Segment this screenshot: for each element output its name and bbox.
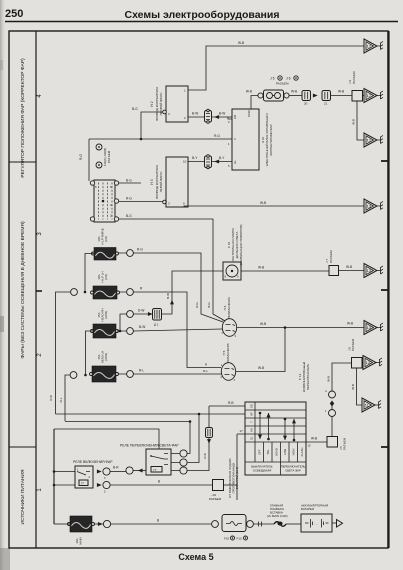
header rule	[5, 21, 398, 23]
svg-text:3: 3	[168, 202, 170, 206]
svg-text:8: 8	[225, 275, 227, 279]
svg-text:HEAD: HEAD	[275, 448, 279, 456]
svg-text:БАТАРЕЯ: БАТАРЕЯ	[301, 507, 314, 511]
svg-text:W-B: W-B	[258, 366, 264, 370]
svg-text:Н 3: Н 3	[150, 179, 154, 184]
ECU box korrektor control unit	[232, 109, 259, 170]
wire B-G regulator bottom to headlight area	[119, 219, 227, 322]
wire B-G regulator top-right up	[119, 182, 142, 184]
svg-text:(2L MAIN 3,0W): (2L MAIN 3,0W)	[267, 514, 288, 518]
svg-text:R-L: R-L	[203, 369, 208, 373]
svg-text:D-W: D-W	[138, 309, 144, 313]
svg-text:OFF: OFF	[258, 449, 262, 455]
svg-text:R-G: R-G	[126, 197, 132, 201]
svg-text:V: V	[233, 138, 237, 140]
svg-text:ФОНАРЕЙ (11-5): ФОНАРЕЙ (11-5)	[235, 467, 239, 490]
svg-text:КОРРЕКТОРАМИ ФАР: КОРРЕКТОРАМИ ФАР	[269, 124, 273, 155]
svg-text:17: 17	[367, 93, 372, 98]
wire B to connector J34	[110, 484, 212, 486]
svg-text:FLASH: FLASH	[300, 448, 304, 457]
svg-text:5: 5	[228, 164, 230, 168]
svg-text:Схема 5: Схема 5	[178, 552, 213, 562]
svg-text:F10: F10	[224, 537, 230, 541]
fuse HEAD LH	[92, 366, 116, 382]
wire B fuse to fusible link	[94, 523, 212, 525]
wire R fuse2 to left headlamp	[120, 292, 222, 368]
svg-text:EL: EL	[250, 436, 254, 440]
svg-text:HF: HF	[250, 412, 254, 416]
junction box J7	[329, 266, 339, 276]
svg-text:B: B	[157, 519, 159, 523]
wire bus to fuse	[54, 523, 70, 525]
offpage triangle 4	[364, 199, 377, 213]
svg-text:ЛЕВАЯ ФАРА: ЛЕВАЯ ФАРА	[226, 342, 230, 362]
svg-text:20: 20	[304, 102, 308, 106]
svg-text:17: 17	[367, 44, 372, 49]
wire to left bus R-L	[65, 375, 70, 421]
svg-text:J 5: J 5	[270, 77, 275, 81]
long wire R-G regulator to ECU pin V	[89, 138, 232, 140]
svg-text:Р 8: Р 8	[101, 228, 105, 233]
svg-text:B-G: B-G	[132, 107, 138, 111]
svg-text:B-W: B-W	[192, 112, 198, 116]
svg-text:HIGH: HIGH	[292, 449, 296, 456]
wire B-W fuse3 to right headlamp	[120, 329, 222, 331]
svg-text:W-B: W-B	[258, 266, 264, 270]
svg-text:РАЗЪЕМ: РАЗЪЕМ	[107, 150, 111, 163]
svg-text:(КОМБИНАЦИЯ ПРИБОРОВ): (КОМБИНАЦИЯ ПРИБОРОВ)	[239, 224, 243, 265]
ECU ground chain wire	[251, 96, 260, 110]
wire down to regulator top-left pin	[88, 139, 90, 181]
wire B-W right drive to D1	[188, 116, 205, 118]
svg-text:HU: HU	[250, 428, 254, 432]
svg-text:(UPR): (UPR)	[104, 353, 108, 361]
high beam indicator lamp box	[223, 262, 241, 280]
oval connector 20	[302, 91, 311, 101]
svg-text:B-G: B-G	[126, 214, 132, 218]
bus junction fuse2	[84, 291, 87, 294]
offpage triangle 6	[364, 321, 377, 335]
fusible link symbol	[253, 523, 274, 525]
sidebar section line B	[9, 446, 36, 448]
wire D-W branch to diode box	[117, 314, 148, 331]
connector circle left of fuse4	[70, 372, 77, 379]
svg-text:3: 3	[37, 232, 43, 236]
svg-text:ГГ: ГГ	[81, 482, 85, 486]
svg-text:B-G: B-G	[126, 179, 132, 183]
connector circle left of fuse2	[71, 289, 78, 296]
dimmer relay box	[146, 449, 171, 475]
svg-text:2: 2	[228, 120, 230, 124]
svg-text:R: R	[205, 363, 208, 367]
svg-text:9: 9	[237, 275, 239, 279]
svg-text:HL: HL	[233, 160, 237, 164]
wire B-R to dimmer relay	[110, 471, 126, 473]
svg-text:РАЗЪЕМ: РАЗЪЕМ	[209, 497, 222, 501]
svg-text:R-L: R-L	[59, 397, 63, 402]
svg-text:Н 2: Н 2	[150, 101, 154, 106]
headlight relay box	[75, 466, 93, 488]
wire to left bus R-B	[56, 292, 71, 414]
fuse 40A MAIN	[70, 516, 92, 532]
svg-text:РАЗЪЕМ: РАЗЪЕМ	[329, 250, 333, 263]
svg-text:B-Y: B-Y	[219, 156, 225, 160]
diode box high beam	[153, 309, 162, 321]
svg-text:РЕЛЕ ВКЛЮЧЕНИЯ ФАР: РЕЛЕ ВКЛЮЧЕНИЯ ФАР	[73, 460, 113, 464]
wire lamp to J7 and triangle 5	[241, 270, 364, 273]
svg-text:MAIN: MAIN	[79, 537, 83, 544]
svg-text:R-B: R-B	[203, 453, 207, 458]
svg-text:13: 13	[367, 325, 372, 330]
sidebar divider	[35, 31, 37, 548]
svg-text:W-B: W-B	[347, 322, 353, 326]
wire diode box up to lamp	[162, 271, 224, 314]
wire fuse3 left to bus	[86, 331, 94, 375]
dimmer right pins	[180, 450, 187, 457]
svg-text:T: T	[250, 421, 254, 423]
svg-text:GND: GND	[247, 109, 251, 117]
svg-text:3: 3	[235, 334, 237, 338]
svg-text:Д 1: Д 1	[154, 323, 159, 327]
svg-text:2: 2	[184, 116, 186, 120]
svg-text:РАЗЪЕМ: РАЗЪЕМ	[352, 71, 356, 84]
contact arrows	[260, 413, 294, 440]
svg-text:6: 6	[95, 185, 97, 189]
svg-text:J 6: J 6	[286, 77, 291, 81]
connector J30 circle A	[96, 144, 102, 150]
wire B-Y left drive to D2	[188, 161, 205, 163]
svg-text:W-B: W-B	[291, 90, 297, 94]
svg-text:HR: HR	[233, 114, 237, 119]
svg-text:W-B: W-B	[260, 201, 266, 205]
wire W-B left drive bottom to triangle 4	[184, 206, 364, 207]
svg-text:10: 10	[183, 160, 187, 164]
junction box J8	[352, 358, 363, 369]
svg-text:9: 9	[183, 202, 185, 206]
svg-text:СВЕТА ФАР: СВЕТА ФАР	[285, 469, 301, 473]
svg-text:W-B: W-B	[260, 322, 266, 326]
svg-text:ФАРЫ (БЕЗ СИСТЕМЫ ОСВЕЩЕНИЯ В: ФАРЫ (БЕЗ СИСТЕМЫ ОСВЕЩЕНИЯ В ДНЕВНОЕ ВР…	[20, 221, 26, 359]
battery	[301, 514, 332, 532]
svg-text:W-B: W-B	[346, 265, 352, 269]
svg-text:13: 13	[367, 204, 372, 209]
svg-text:ОСВЕЩЕНИЯ: ОСВЕЩЕНИЯ	[253, 469, 271, 473]
svg-text:W-B: W-B	[351, 384, 355, 390]
actuator box right headlamp corrector	[166, 86, 188, 122]
svg-text:A: A	[325, 389, 327, 393]
wire W-B right headlamp to triangle 6	[237, 327, 364, 329]
junction box J9	[352, 91, 363, 102]
svg-text:B-R: B-R	[113, 466, 119, 470]
oval connector 21	[322, 91, 331, 101]
svg-text:W-B: W-B	[238, 41, 244, 45]
left headlamp H5	[221, 363, 235, 381]
svg-text:TAIL: TAIL	[266, 449, 270, 455]
svg-text:13: 13	[367, 268, 372, 273]
svg-text:2: 2	[37, 353, 43, 357]
right edge tick 3	[381, 446, 388, 448]
svg-text:R-G: R-G	[214, 134, 220, 138]
fuse H-LP LH	[93, 286, 117, 299]
arrow	[313, 94, 318, 98]
svg-text:(LO): (LO)	[104, 236, 108, 242]
wire W-B left headlamp join	[236, 328, 285, 372]
fog switch reference line	[237, 434, 245, 500]
svg-text:17: 17	[240, 429, 244, 433]
fuse H-LP RH	[94, 248, 116, 261]
wire B-W D1 to ECU	[212, 117, 233, 119]
svg-text:4: 4	[37, 94, 43, 98]
svg-text:3: 3	[234, 378, 236, 382]
svg-text:РЕГУЛЯТОР ПОЛОЖЕНИЯ ФАР (КОРРЕ: РЕГУЛЯТОР ПОЛОЖЕНИЯ ФАР (КОРРЕКТОР ФАР)	[20, 58, 26, 178]
svg-text:B-W: B-W	[219, 112, 225, 116]
frame right edge thick	[387, 31, 389, 548]
offpage triangle 7	[363, 356, 376, 370]
svg-text:R: R	[140, 287, 143, 291]
svg-text:R-L: R-L	[139, 369, 144, 373]
svg-text:1: 1	[228, 142, 230, 146]
svg-text:РАЗЪЕМ: РАЗЪЕМ	[276, 82, 289, 86]
svg-text:(UPR): (UPR)	[104, 311, 108, 319]
svg-text:ПРАВАЯ ФАРА: ПРАВАЯ ФАРА	[227, 296, 231, 318]
diode connector D1	[205, 111, 212, 123]
svg-text:5: 5	[104, 490, 106, 494]
wire W-B top from right drive to triangle 1	[188, 46, 364, 90]
dimmer pin risers	[187, 414, 199, 471]
svg-text:21: 21	[324, 102, 328, 106]
combination switch table	[245, 402, 306, 475]
svg-text:ED: ED	[250, 404, 254, 408]
regulator pins	[90, 181, 94, 185]
horizontal feed wire H1	[56, 413, 246, 415]
svg-text:R-G: R-G	[195, 302, 199, 308]
svg-text:РАЗЪЕМ: РАЗЪЕМ	[351, 338, 355, 351]
table output wire W-B	[306, 441, 327, 443]
svg-text:B-Y: B-Y	[192, 156, 198, 160]
wire to triangle 2	[363, 95, 365, 97]
connector pair block J5 J6	[258, 93, 263, 98]
dimmer chain vertical with connector	[191, 406, 210, 471]
svg-text:2: 2	[89, 475, 91, 479]
svg-text:1: 1	[184, 89, 186, 93]
svg-text:R-B: R-B	[49, 395, 53, 400]
svg-text:РАЗЪЕМ: РАЗЪЕМ	[343, 437, 347, 450]
table feed wire upper	[209, 405, 245, 407]
offpage triangle 1	[364, 39, 377, 53]
svg-text:W-B: W-B	[311, 437, 317, 441]
relay right pins	[97, 470, 102, 474]
relay left wires to bus	[54, 472, 75, 486]
ground chain up from J5	[332, 363, 352, 437]
horizontal feed wire H2	[65, 421, 190, 423]
svg-text:F10: F10	[237, 537, 243, 541]
right headlamp H6	[222, 319, 236, 337]
divider tick	[36, 290, 42, 292]
offpage triangle 3	[364, 133, 377, 147]
svg-text:15: 15	[308, 444, 311, 448]
svg-text:1: 1	[77, 468, 79, 472]
connector J34	[213, 480, 224, 491]
svg-text:R-G: R-G	[79, 154, 83, 160]
wire W-B J9 down to triangle 3	[357, 101, 364, 140]
main fusible link block	[212, 521, 219, 528]
fuse HEAD RH	[93, 324, 116, 338]
wire R-G regulator to left drive pin3	[119, 201, 165, 203]
svg-text:W-B: W-B	[246, 90, 252, 94]
wire B-Y D2 to ECU pin 5	[212, 161, 233, 163]
svg-text:3: 3	[104, 476, 106, 480]
headlamp leveling switch dashed box	[94, 180, 115, 222]
wire J8 to triangle 7	[362, 362, 363, 364]
wire R-L fuse4 to left headlamp	[119, 373, 222, 375]
battery ground	[332, 522, 337, 524]
main bus vertical	[53, 429, 55, 524]
svg-text:B: B	[158, 480, 160, 484]
bus junction fuse4	[84, 374, 87, 377]
svg-text:B-W: B-W	[166, 293, 170, 299]
svg-text:B-W: B-W	[139, 325, 145, 329]
offpage triangle 8	[362, 398, 375, 412]
svg-text:(LO): (LO)	[104, 274, 108, 280]
svg-text:3: 3	[168, 112, 170, 116]
junction box J5 lower	[327, 437, 338, 448]
svg-text:Схемы электрооборудования: Схемы электрооборудования	[125, 9, 280, 21]
offpage triangle 2	[364, 89, 377, 103]
svg-text:ЛЕВОЙ ФАРЫ: ЛЕВОЙ ФАРЫ	[159, 171, 163, 192]
wire fuse1 left to bus	[85, 254, 94, 293]
svg-text:W-B: W-B	[327, 376, 331, 382]
svg-text:1: 1	[37, 488, 43, 492]
horizontal feed wire H3	[54, 429, 159, 449]
svg-text:ПЕРЕКЛЮЧАТЕЛЬ: ПЕРЕКЛЮЧАТЕЛЬ	[306, 364, 310, 390]
svg-text:ГГ: ГГ	[154, 468, 158, 472]
wire W-B to oval 20	[289, 95, 302, 97]
svg-text:РЕЛЕ ПЕРЕКЛЮЧЕНИЯ СВЕТА ФАР: РЕЛЕ ПЕРЕКЛЮЧЕНИЯ СВЕТА ФАР	[120, 444, 179, 448]
svg-text:W-B: W-B	[352, 119, 356, 125]
svg-text:250: 250	[5, 8, 23, 20]
svg-text:LOW: LOW	[283, 448, 287, 455]
right edge tick 1	[381, 160, 388, 162]
offpage triangle 5	[364, 264, 377, 278]
svg-text:17: 17	[367, 138, 372, 143]
svg-text:13: 13	[366, 360, 371, 365]
svg-text:ИСТОЧНИКИ ПИТАНИЯ: ИСТОЧНИКИ ПИТАНИЯ	[20, 469, 26, 525]
svg-text:...: ...	[316, 522, 319, 526]
wire W-B to JB	[331, 95, 353, 97]
sidebar section line A	[9, 161, 36, 163]
diode connector D2	[205, 156, 212, 168]
svg-text:B-G: B-G	[207, 302, 211, 308]
wire J8 down to triangle 8	[357, 368, 363, 405]
svg-text:R-G: R-G	[137, 248, 143, 252]
wire B-G to right drive pin 3	[141, 112, 164, 139]
wire R-G fuse1 to right headlamp	[118, 253, 223, 322]
actuator box left headlamp corrector	[166, 157, 188, 207]
svg-text:W-B: W-B	[338, 90, 344, 94]
right edge tick 2	[381, 289, 388, 291]
svg-text:1: 1	[325, 409, 327, 413]
svg-text:R-B: R-B	[228, 401, 234, 405]
connector J30 circle B	[96, 162, 102, 168]
